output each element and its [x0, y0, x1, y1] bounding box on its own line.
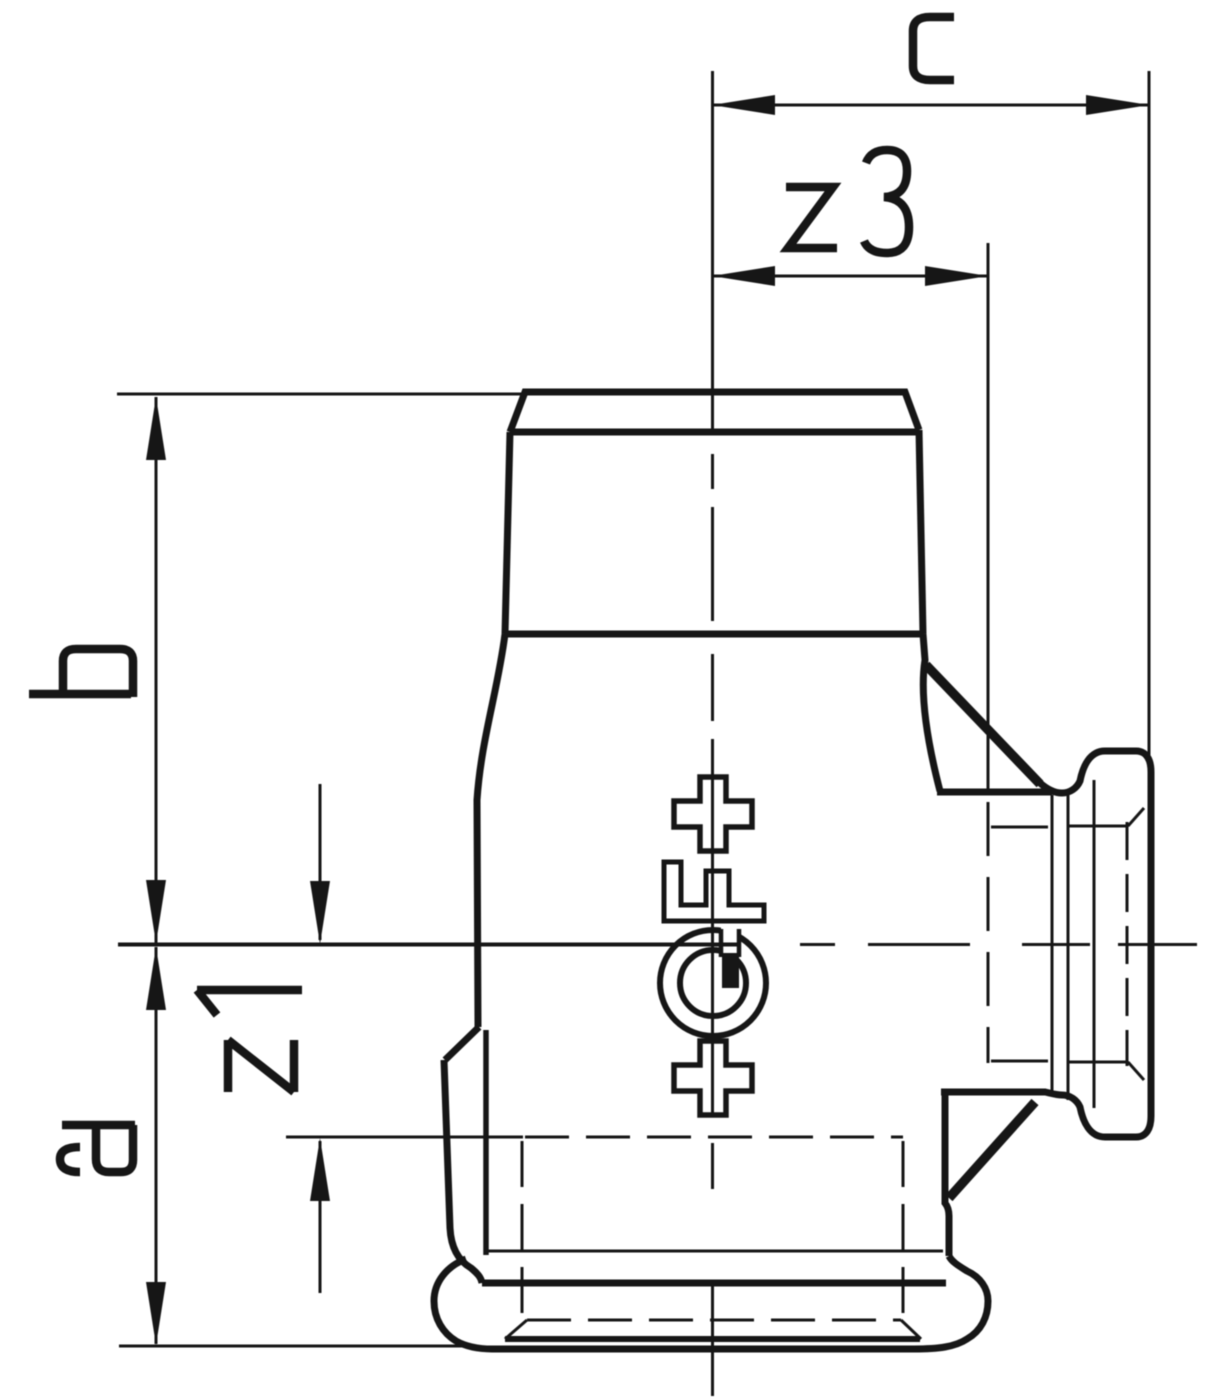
dimension z1 upper line	[319, 784, 322, 940]
branch outline	[1040, 751, 1151, 1137]
bottom cap outline	[434, 1256, 988, 1349]
dimension labels (DIN style stroked glyphs)	[29, 17, 954, 1172]
logo letter G slot edges	[721, 929, 739, 957]
male thread right edge	[919, 430, 923, 634]
wire: z1 lower extension line	[286, 1136, 523, 1139]
branch socket vertical 1	[1051, 795, 1054, 1091]
logo cross bottom	[674, 1041, 752, 1115]
label a (rotated)	[60, 1125, 135, 1172]
label z3 : z	[786, 187, 837, 248]
cap left chamfer diagonal	[505, 1320, 527, 1339]
dimension z3 line	[712, 275, 988, 278]
body left chamfer to bead	[445, 1027, 479, 1060]
branch thread hidden vertical near mouth	[1126, 822, 1129, 1066]
arrowhead z1 upper	[310, 881, 330, 944]
dimension b line	[155, 397, 158, 943]
wire: c right extension line	[1148, 71, 1151, 755]
male thread top face	[510, 392, 919, 432]
arrowhead c right	[1086, 95, 1149, 115]
arrowhead c left	[712, 95, 775, 115]
bottom cap top edge	[482, 1280, 946, 1287]
label z1 : 1 (rotated)	[197, 990, 302, 1015]
branch socket vertical 2	[1067, 793, 1070, 1100]
male thread bottom line	[504, 631, 923, 638]
bottom gusset diagonal	[949, 1102, 1035, 1198]
wire: centerline vertical above fitting (c/z3 left reference)	[711, 71, 714, 434]
branch bore bottom line	[991, 1060, 1048, 1063]
bottom socket hidden vertical right	[902, 1141, 905, 1316]
cap inner hidden line	[527, 1319, 901, 1322]
male thread second line	[510, 429, 919, 436]
wire: branch centerline dash segments	[800, 943, 1197, 946]
logo letter G outer circle	[660, 930, 766, 1036]
top gusset bottom line	[937, 789, 1052, 796]
thin solid interior lines	[486, 780, 1144, 1339]
bottom socket hidden vertical left	[521, 1141, 524, 1320]
label z1 : z (rotated)	[228, 1040, 294, 1092]
dimension a line	[155, 947, 158, 1344]
wire: top extension line (b top reference)	[117, 393, 525, 396]
fitting outline: thick object lines	[434, 392, 1151, 1349]
wire: z3 right extension line	[987, 243, 990, 789]
arrowhead z3 right	[925, 266, 988, 286]
branch mouth chamfer bottom	[1069, 1062, 1144, 1080]
dimension z1 lower line	[319, 1141, 322, 1293]
body left edge	[477, 634, 505, 1027]
logo letter G inner circle	[680, 950, 746, 1016]
dimension c line	[712, 104, 1149, 107]
logo letter G bar	[722, 953, 739, 988]
arrowhead a bottom	[146, 1282, 166, 1345]
label c	[913, 17, 954, 80]
wire: bottom extension line (a bottom reference)	[119, 1345, 462, 1348]
arrowhead b bottom	[146, 880, 166, 943]
GF+ logo (rotated 90 CCW)	[660, 777, 766, 1115]
vertical centerline dash segments	[711, 454, 714, 1396]
cap right chamfer diagonal	[901, 1320, 921, 1339]
branch thread depth hidden line	[987, 802, 990, 1063]
arrowhead z1 lower	[310, 1138, 330, 1201]
male thread left edge	[505, 432, 510, 634]
top gusset diagonal	[926, 665, 1040, 784]
cap near-edge thin line	[486, 1250, 943, 1253]
logo letter G slot	[721, 927, 739, 957]
hidden (dashed) lines	[522, 802, 1127, 1320]
label b (rotated)	[29, 649, 133, 697]
bottom gusset vertical edge	[945, 1089, 949, 1256]
branch bore top line	[991, 826, 1048, 829]
branch mouth chamfer top	[1069, 808, 1144, 826]
bead inner left line	[483, 1030, 489, 1255]
body right edge with fillet	[923, 634, 940, 791]
arrowhead a top	[146, 947, 166, 1010]
arrowhead z3 left	[712, 266, 775, 286]
bottom gusset top line	[941, 1089, 1046, 1096]
logo letter F (rotated)	[664, 862, 764, 921]
wire: middle horizontal reference / branch centerline solid part	[118, 943, 740, 947]
bottom cap inner bottom edge	[505, 1336, 920, 1342]
bead outer left edge	[444, 1060, 482, 1283]
logo cross top	[674, 777, 752, 851]
arrowhead b top	[146, 397, 166, 460]
centerlines drawn over logo	[118, 454, 1197, 1396]
branch socket vertical 3	[1093, 780, 1096, 1108]
label z3 : 3	[864, 150, 909, 253]
bottom socket thread depth hidden line	[525, 1136, 903, 1139]
